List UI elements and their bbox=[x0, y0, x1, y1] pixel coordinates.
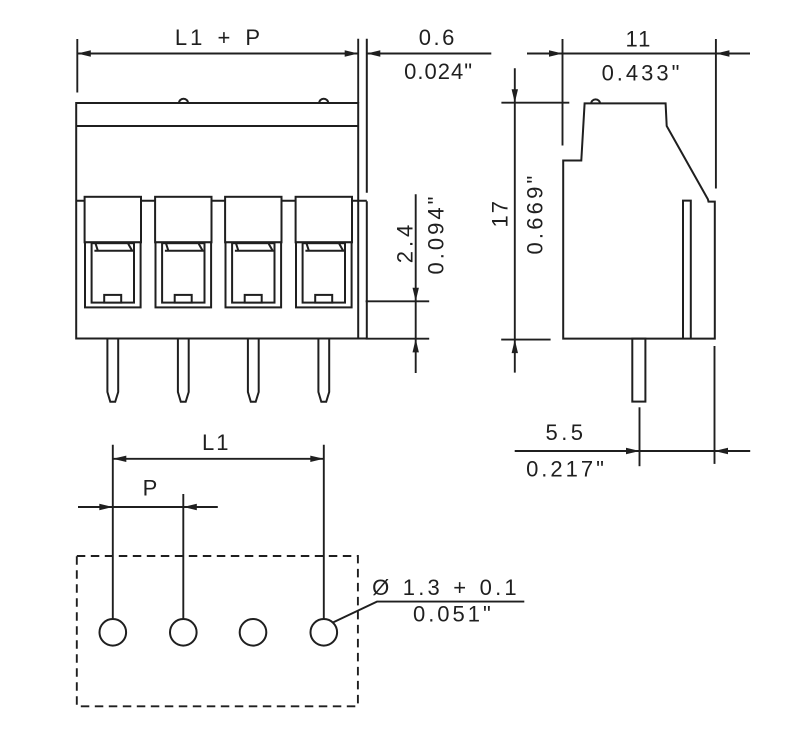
pole 2 pin bbox=[178, 339, 189, 402]
pole 2 clamp frame outer bbox=[156, 242, 212, 307]
pole 1 clamp cavity bbox=[92, 243, 134, 302]
pole 4 clamp funnel bbox=[305, 244, 344, 251]
dimension L1 line bbox=[113, 458, 324, 460]
svg-text:17: 17 bbox=[487, 199, 512, 227]
footprint dashed outline bbox=[77, 556, 358, 706]
svg-text:2.4: 2.4 bbox=[393, 221, 418, 264]
footprint pad 2 bbox=[170, 619, 197, 646]
dimension 5.5 pin extension bbox=[639, 407, 641, 466]
svg-text:11: 11 bbox=[625, 27, 652, 52]
dimension L1 left extension bbox=[112, 445, 114, 619]
pole 2 clamp funnel bbox=[165, 244, 204, 251]
dimension 2.4 arrow down bbox=[413, 288, 419, 302]
svg-text:0.669": 0.669" bbox=[523, 172, 548, 254]
footprint pad 4 bbox=[311, 619, 338, 646]
pole 3 clamp frame outer bbox=[226, 242, 282, 307]
screw bump pole 4 bbox=[319, 99, 328, 103]
dimension L1+P left arrow bbox=[77, 50, 91, 56]
side view pin bbox=[632, 339, 645, 402]
pole 1 pin bbox=[107, 339, 118, 402]
dimension 2.4 tick upper bbox=[366, 300, 430, 302]
svg-text:0.024": 0.024" bbox=[404, 59, 473, 84]
pole 4 pin bbox=[318, 339, 329, 402]
dimension 5.5 line bbox=[515, 450, 751, 452]
front view right edge extension line bbox=[357, 39, 359, 103]
front view shelf line bbox=[76, 200, 367, 202]
pole 2 wire stop box bbox=[175, 295, 192, 303]
svg-text:L1 + P: L1 + P bbox=[175, 25, 263, 50]
front view body outline bbox=[76, 103, 358, 339]
dimension L1+P left extension bbox=[76, 39, 78, 93]
front view right flange lower line bbox=[366, 201, 368, 338]
dimension 11 left arrow bbox=[549, 50, 563, 56]
dimension 11 right extension bbox=[715, 39, 717, 189]
dimension P line bbox=[78, 506, 218, 508]
side view slot bbox=[683, 201, 691, 339]
dimension 5.5 right extension bbox=[714, 346, 716, 464]
pole 4 clamp cavity bbox=[303, 243, 345, 302]
pole 4 wire stop box bbox=[315, 295, 332, 303]
svg-text:0.6: 0.6 bbox=[419, 25, 457, 50]
pole 4 clamp top block bbox=[296, 197, 352, 243]
svg-text:5.5: 5.5 bbox=[545, 420, 586, 445]
dimension 17 top tick bbox=[501, 102, 569, 104]
side view outline bbox=[563, 103, 715, 338]
screw bump pole 2 bbox=[179, 99, 188, 103]
pole 4 clamp frame outer bbox=[296, 242, 352, 307]
svg-text:0.433": 0.433" bbox=[602, 61, 683, 86]
dimension 0.6 tail line bbox=[367, 53, 492, 55]
svg-text:0.217": 0.217" bbox=[526, 457, 607, 482]
front view bottom edge extension to flange bbox=[358, 338, 367, 340]
dimension L1+P line bbox=[77, 53, 358, 55]
svg-text:0.094": 0.094" bbox=[424, 194, 449, 275]
dimension P right arrow bbox=[183, 504, 197, 510]
svg-text:L1: L1 bbox=[202, 430, 230, 455]
svg-text:Ø 1.3 + 0.1: Ø 1.3 + 0.1 bbox=[372, 575, 520, 600]
dimension 17 arrow up bbox=[512, 340, 518, 354]
front view right flange upper line bbox=[366, 39, 368, 193]
dimension 17 arrow down bbox=[512, 89, 518, 103]
dimension L1+P right arrow bbox=[345, 50, 359, 56]
pole 2 clamp top block bbox=[155, 197, 211, 243]
dimension P extension bbox=[182, 494, 184, 619]
dimension 2.4 tick lower bbox=[366, 338, 430, 340]
dimension L1 left arrow bbox=[113, 456, 127, 462]
pole 3 clamp top block bbox=[225, 197, 281, 243]
pole 3 pin bbox=[248, 339, 259, 402]
pole 3 clamp cavity bbox=[232, 243, 274, 302]
pole 3 wire stop box bbox=[245, 295, 262, 303]
pole 1 wire stop box bbox=[104, 295, 121, 303]
pole 2 clamp cavity bbox=[162, 243, 204, 302]
footprint pad 3 bbox=[240, 619, 267, 646]
dimension 5.5 right arrow bbox=[715, 448, 729, 454]
pole 1 clamp frame outer bbox=[85, 242, 141, 307]
dimension L1 right arrow bbox=[310, 456, 324, 462]
pole 1 clamp top block bbox=[85, 197, 141, 243]
dimension 17 line bbox=[514, 68, 516, 372]
pole 3 clamp funnel bbox=[235, 244, 274, 251]
dimension 2.4 line bbox=[415, 194, 417, 373]
dimension 11 line bbox=[527, 53, 750, 55]
dimension 5.5 left arrow bbox=[626, 448, 640, 454]
footprint pad 1 bbox=[100, 619, 127, 646]
dimension P left arrow bbox=[99, 504, 113, 510]
hole diameter leader line bbox=[333, 602, 525, 623]
dimension 11 left extension bbox=[562, 39, 564, 146]
dimension 11 right arrow bbox=[716, 50, 730, 56]
dimension 2.4 arrow up bbox=[413, 339, 419, 353]
front view top edge inner line bbox=[76, 125, 358, 127]
svg-text:P: P bbox=[143, 476, 160, 501]
dimension 17 bottom tick bbox=[501, 339, 550, 341]
svg-text:0.051": 0.051" bbox=[413, 602, 494, 627]
side view screw bump bbox=[591, 99, 600, 103]
dimension 0.6 arrow bbox=[367, 50, 381, 56]
dimension L1 right extension bbox=[323, 445, 325, 619]
pole 1 clamp funnel bbox=[94, 244, 133, 251]
